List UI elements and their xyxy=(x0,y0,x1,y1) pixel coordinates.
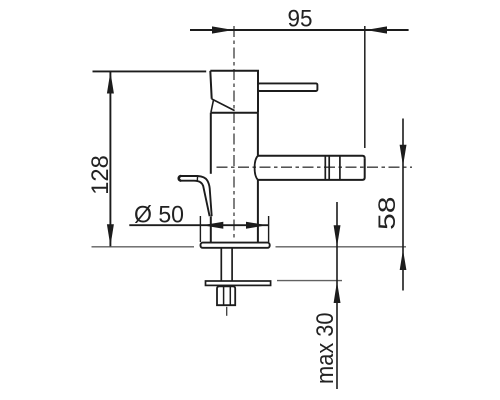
svg-text:95: 95 xyxy=(288,6,313,33)
svg-text:128: 128 xyxy=(87,155,114,195)
dimension 128 bottom arrow xyxy=(107,224,114,246)
mounting nut xyxy=(217,286,235,305)
dimension D50 right extension line xyxy=(268,216,270,242)
lever diagonal line xyxy=(212,99,235,111)
dimension 95 right arrow xyxy=(366,26,387,33)
dimension 58 bottom arrow xyxy=(400,250,407,270)
dimension 128 bottom extension line xyxy=(92,246,195,248)
side lever outer edge xyxy=(181,176,212,216)
side lever end cap xyxy=(179,176,181,181)
countertop surface line right xyxy=(276,246,407,248)
dimension max 30 line xyxy=(336,202,338,389)
shank right edge xyxy=(231,248,233,281)
body right edge upper segment xyxy=(257,113,259,156)
inlet centerline below nut xyxy=(226,307,228,316)
dimension 95 line xyxy=(190,29,409,31)
side lever fill (hides body edge) xyxy=(181,176,212,216)
dimension D50 left arrow xyxy=(202,222,223,229)
spout top edge xyxy=(258,156,365,158)
spout ring line 1 xyxy=(324,156,326,180)
svg-text:Ø 50: Ø 50 xyxy=(134,202,184,229)
nut facet line left xyxy=(223,286,225,305)
dimension D50 left extension line xyxy=(199,216,201,242)
svg-text:58: 58 xyxy=(374,196,401,230)
lever wedge line xyxy=(211,100,214,112)
side lever bend tick xyxy=(196,176,198,181)
dimension 58 top arrow xyxy=(400,145,407,166)
base plate xyxy=(201,243,270,248)
dimension 95 left arrow xyxy=(212,26,233,33)
faucet head bottom line xyxy=(211,112,258,114)
side lever inner edge xyxy=(181,181,210,217)
dimension D50 right arrow xyxy=(246,222,267,229)
spout ring line 2 xyxy=(328,156,330,180)
vertical body axis centerline xyxy=(233,26,235,241)
countertop underside line right xyxy=(277,280,342,282)
faucet head cap outline xyxy=(210,71,258,113)
dimension 128 top arrow xyxy=(107,72,114,94)
aerator joint line xyxy=(339,156,341,180)
body left edge upper segment xyxy=(210,113,212,174)
dimension 95 right extension line xyxy=(364,26,366,148)
mounting washer xyxy=(206,281,271,285)
dimension max 30 top arrow xyxy=(334,225,341,247)
dimension D50 line xyxy=(129,224,268,226)
spout end edge xyxy=(364,158,366,177)
svg-text:max 30: max 30 xyxy=(312,312,339,384)
lever handle bar xyxy=(258,83,317,91)
dimension max 30 bottom arrow xyxy=(334,281,341,303)
dimension 128 line xyxy=(109,72,111,247)
body left edge lower segment xyxy=(210,216,212,242)
body right edge lower segment xyxy=(257,180,259,243)
dimension 128 top extension line xyxy=(93,70,207,72)
spout bottom edge xyxy=(258,178,365,180)
horizontal spout axis centerline xyxy=(217,166,413,168)
shank left edge xyxy=(220,248,222,281)
nut facet line right xyxy=(229,286,231,305)
dimension 58 line xyxy=(402,119,404,291)
spout joint arc xyxy=(255,156,258,180)
